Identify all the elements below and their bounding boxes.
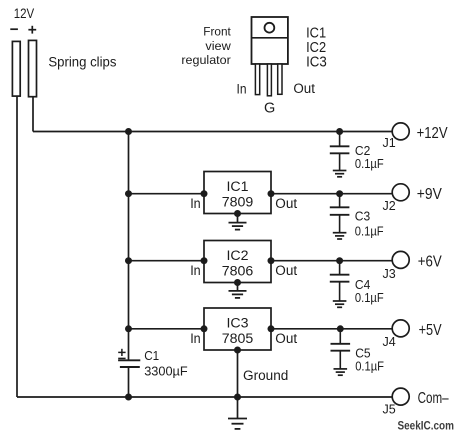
svg-text:J2: J2 [383,199,396,213]
svg-text:J3: J3 [383,267,396,281]
svg-text:7809: 7809 [222,195,254,211]
svg-text:J4: J4 [383,335,396,349]
svg-text:Ground: Ground [243,368,288,383]
svg-text:J1: J1 [383,136,396,150]
svg-text:7806: 7806 [222,264,254,280]
svg-text:regulator: regulator [181,53,230,67]
svg-text:+12V: +12V [417,125,448,142]
svg-text:Out: Out [293,81,315,96]
svg-text:IC3: IC3 [226,316,248,332]
svg-text:+5V: +5V [419,322,442,339]
svg-text:Out: Out [275,263,297,278]
svg-text:IC3: IC3 [306,55,327,71]
svg-text:Out: Out [275,331,297,346]
svg-text:3300µF: 3300µF [144,364,188,379]
svg-text:0.1µF: 0.1µF [355,290,384,305]
svg-text:Front: Front [203,25,231,39]
svg-text:IC1: IC1 [226,179,248,195]
svg-text:7805: 7805 [222,331,254,347]
svg-text:G: G [264,101,275,117]
svg-text:Out: Out [275,196,297,211]
svg-text:Spring clips: Spring clips [48,54,116,69]
svg-text:+6V: +6V [418,254,442,271]
svg-text:Com–: Com– [418,390,449,407]
svg-text:IC2: IC2 [226,248,248,264]
svg-text:0.1µF: 0.1µF [355,224,384,239]
svg-text:IC2: IC2 [306,40,326,56]
svg-text:C3: C3 [355,209,370,224]
svg-text:12V: 12V [14,6,35,21]
svg-text:+9V: +9V [417,186,442,203]
svg-text:In: In [190,263,201,278]
svg-text:J5: J5 [383,403,396,417]
svg-text:C1: C1 [144,348,159,363]
svg-text:SeekIC.com: SeekIC.com [398,419,455,433]
svg-text:0.1µF: 0.1µF [355,358,384,373]
svg-text:In: In [237,82,247,97]
svg-text:IC1: IC1 [306,25,326,41]
svg-text:In: In [190,331,201,346]
svg-text:view: view [205,39,231,53]
svg-text:In: In [190,196,201,211]
svg-text:0.1µF: 0.1µF [355,156,384,171]
